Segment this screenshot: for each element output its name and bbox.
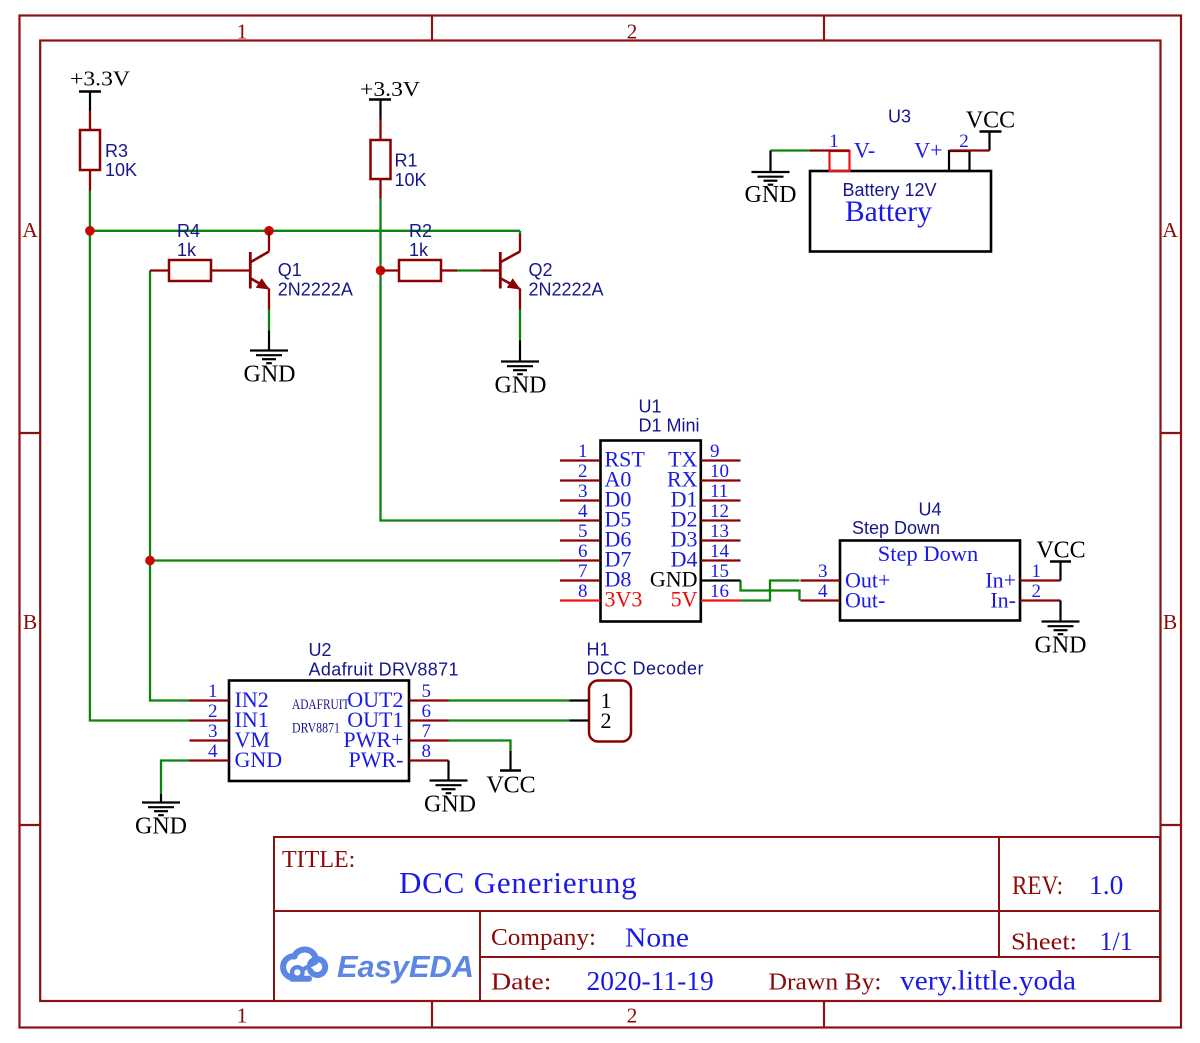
IC U4 Step Down body xyxy=(840,541,1020,621)
wire net y230 horizontal xyxy=(90,230,520,232)
svg-text:2: 2 xyxy=(959,131,969,152)
svg-text:VCC: VCC xyxy=(486,773,535,799)
svg-text:GND: GND xyxy=(244,362,296,388)
svg-text:2N2222A: 2N2222A xyxy=(278,280,353,300)
svg-text:3: 3 xyxy=(578,481,588,502)
EasyEDA logo cloud icon xyxy=(283,949,325,978)
svg-text:3: 3 xyxy=(208,721,218,742)
svg-text:B: B xyxy=(1163,610,1177,634)
svg-text:R1: R1 xyxy=(395,151,418,171)
svg-text:Adafruit DRV8871: Adafruit DRV8871 xyxy=(309,660,459,680)
svg-text:14: 14 xyxy=(710,541,730,562)
svg-text:U1: U1 xyxy=(639,397,662,417)
U4 pin 4 xyxy=(801,581,886,613)
U1 pin 1 xyxy=(560,441,645,472)
svg-text:Step Down: Step Down xyxy=(878,541,979,566)
wire R2 right to Q2 base xyxy=(457,269,481,271)
svg-text:3: 3 xyxy=(818,561,828,582)
svg-text:7: 7 xyxy=(422,721,432,742)
ground symbol below U4 pin 2 xyxy=(1042,601,1080,635)
wire net y230 corner down to Q2 collector xyxy=(519,231,521,236)
svg-text:Company:: Company: xyxy=(491,925,596,951)
wire D7 horizontal xyxy=(150,559,560,561)
wire U1 pin16 to U4 pin3 xyxy=(741,581,800,601)
resistor R3 xyxy=(80,111,100,191)
wire U1 pin15 to U4 pin4 xyxy=(741,581,800,601)
svg-text:5: 5 xyxy=(422,681,432,702)
svg-text:GND: GND xyxy=(424,792,476,818)
svg-text:1: 1 xyxy=(208,681,218,702)
power flag +3.3V for R3 xyxy=(70,67,130,111)
svg-text:TITLE:: TITLE: xyxy=(282,847,355,873)
wire U2 GND pin4 xyxy=(161,761,190,795)
svg-text:+3.3V: +3.3V xyxy=(360,77,420,101)
svg-text:6: 6 xyxy=(578,541,588,562)
junction node at R3 bottom xyxy=(85,226,95,236)
wire R4 left vertical to IN2 xyxy=(150,271,190,701)
wire Q2 emitter to GND xyxy=(519,310,521,341)
transistor Q1 emitter arrow xyxy=(256,278,270,289)
svg-text:GND: GND xyxy=(235,747,283,772)
svg-text:4: 4 xyxy=(578,501,588,522)
U1 pin 13 xyxy=(671,521,741,552)
svg-text:A: A xyxy=(22,218,38,242)
svg-text:3V3: 3V3 xyxy=(605,587,643,612)
svg-text:Battery: Battery xyxy=(845,196,932,228)
U1 pin 3 xyxy=(560,481,631,512)
svg-text:2: 2 xyxy=(627,1004,638,1028)
svg-text:GND: GND xyxy=(1035,633,1087,659)
svg-text:12: 12 xyxy=(710,501,729,522)
svg-text:DRV8871: DRV8871 xyxy=(292,721,340,737)
U1 pin 16 5V xyxy=(671,581,741,612)
svg-text:DCC Generierung: DCC Generierung xyxy=(399,865,637,900)
junction node at R2 left xyxy=(376,266,386,276)
svg-text:10: 10 xyxy=(710,461,729,482)
svg-text:4: 4 xyxy=(818,581,828,602)
svg-text:5V: 5V xyxy=(671,587,698,612)
battery U3 pin 1 V- xyxy=(810,131,875,171)
transistor Q2 xyxy=(481,234,521,310)
svg-text:8: 8 xyxy=(422,741,432,762)
U2 pin 8 xyxy=(349,741,449,772)
svg-text:EasyEDA: EasyEDA xyxy=(337,949,474,984)
junction node at D7 tap xyxy=(145,556,155,566)
svg-text:6: 6 xyxy=(422,701,432,722)
svg-text:A: A xyxy=(1162,218,1178,242)
ground symbol at battery pin 1 xyxy=(752,151,790,185)
svg-text:VCC: VCC xyxy=(966,108,1015,134)
svg-text:V+: V+ xyxy=(914,138,942,163)
svg-text:9: 9 xyxy=(710,441,720,462)
U2 pin 5 xyxy=(347,681,448,712)
U1 pin 15 GND xyxy=(650,561,741,592)
U1 pin 14 xyxy=(671,541,741,572)
junction node at Q1 collector xyxy=(264,226,274,236)
svg-text:Out-: Out- xyxy=(845,588,885,613)
svg-text:16: 16 xyxy=(710,581,729,602)
U1 pin 6 xyxy=(560,541,631,572)
svg-text:1/1: 1/1 xyxy=(1100,927,1133,956)
svg-text:very.little.yoda: very.little.yoda xyxy=(900,965,1076,996)
svg-text:Step Down: Step Down xyxy=(852,518,940,538)
IC U1 D1 Mini body xyxy=(601,441,701,622)
svg-text:1k: 1k xyxy=(177,240,197,260)
svg-text:VCC: VCC xyxy=(1036,538,1085,564)
svg-text:+3.3V: +3.3V xyxy=(70,67,130,91)
svg-text:Drawn By:: Drawn By: xyxy=(769,970,882,996)
resistor R1 xyxy=(371,120,391,199)
U4 pin 1 xyxy=(985,561,1060,593)
svg-text:PWR-: PWR- xyxy=(349,747,404,772)
svg-text:15: 15 xyxy=(710,561,729,582)
U2 pin 7 xyxy=(343,721,448,752)
svg-text:10K: 10K xyxy=(395,170,427,190)
U2 pin 4 xyxy=(190,741,283,772)
ground symbol below U2 pin 4 xyxy=(142,794,180,815)
svg-text:2N2222A: 2N2222A xyxy=(529,280,604,300)
svg-text:B: B xyxy=(23,610,37,634)
svg-text:13: 13 xyxy=(710,521,729,542)
U1 pin 8 3V3 xyxy=(560,581,642,612)
wire Q1 emitter to GND xyxy=(268,310,270,331)
svg-text:Sheet:: Sheet: xyxy=(1011,930,1077,956)
U2 pin 3 xyxy=(190,721,270,752)
svg-text:4: 4 xyxy=(208,741,218,762)
svg-text:8: 8 xyxy=(578,581,588,602)
svg-text:1.0: 1.0 xyxy=(1089,869,1123,900)
svg-text:GND: GND xyxy=(745,182,797,208)
svg-text:H1: H1 xyxy=(587,640,610,660)
resistor R2 xyxy=(381,260,458,281)
svg-text:U2: U2 xyxy=(309,640,332,660)
ground symbol below Q1 xyxy=(250,331,288,364)
IC U2 Adafruit DRV8871 body xyxy=(229,681,409,782)
U1 pin 9 xyxy=(668,441,740,472)
power flag VCC above U4 pin 1 xyxy=(1036,538,1085,581)
wire battery pin1 to GND xyxy=(771,149,811,151)
svg-text:REV:: REV: xyxy=(1012,871,1063,900)
battery U3 pin 2 V+ xyxy=(914,131,989,171)
svg-text:GND: GND xyxy=(135,814,187,840)
U2 pin 2 xyxy=(190,701,269,732)
svg-text:1: 1 xyxy=(1032,561,1042,582)
wire R3 bottom to junction xyxy=(89,191,91,231)
svg-text:1: 1 xyxy=(829,131,839,152)
svg-text:Q1: Q1 xyxy=(278,260,302,280)
U1 pin 5 xyxy=(560,521,631,552)
ground symbol below U2 pin 8 xyxy=(430,761,468,794)
svg-text:1: 1 xyxy=(237,19,248,43)
U1 pin 10 xyxy=(667,461,741,492)
svg-text:U4: U4 xyxy=(918,500,941,520)
title block grid xyxy=(274,837,1160,1001)
U1 pin 11 xyxy=(671,481,741,512)
svg-text:1: 1 xyxy=(237,1004,248,1028)
resistor R4 xyxy=(150,260,249,281)
H1 pin 2 xyxy=(570,708,612,733)
U2 pin 1 xyxy=(190,681,269,712)
U4 pin 2 xyxy=(990,581,1060,613)
power flag VCC above battery pin 2 xyxy=(966,108,1015,151)
U1 pin 7 xyxy=(560,561,631,592)
svg-text:2020-11-19: 2020-11-19 xyxy=(587,965,714,996)
svg-text:R3: R3 xyxy=(105,141,128,161)
U1 pin 2 xyxy=(560,461,631,492)
svg-text:10K: 10K xyxy=(105,160,137,180)
svg-text:2: 2 xyxy=(627,19,638,43)
svg-text:DCC Decoder: DCC Decoder xyxy=(587,659,705,679)
wire left vertical to IN1 xyxy=(90,231,190,721)
U4 pin 3 xyxy=(801,561,891,593)
wire R1 bottom vertical to D5 xyxy=(381,199,561,521)
H1 pin 1 xyxy=(570,688,612,713)
svg-text:1: 1 xyxy=(578,441,588,462)
wire PWR+ to VCC xyxy=(449,741,511,752)
U1 pin 4 xyxy=(560,501,631,532)
svg-text:1k: 1k xyxy=(409,240,429,260)
svg-text:In-: In- xyxy=(990,588,1016,613)
battery U3 body xyxy=(810,171,991,252)
U2 pin 6 xyxy=(347,701,448,732)
svg-text:2: 2 xyxy=(601,708,612,733)
svg-text:11: 11 xyxy=(710,481,728,502)
ground symbol below Q2 xyxy=(501,341,539,375)
U1 pin 12 xyxy=(671,501,741,532)
svg-text:U3: U3 xyxy=(888,107,911,127)
transistor Q2 emitter arrow xyxy=(507,278,521,289)
svg-text:2: 2 xyxy=(208,701,218,722)
power flag VCC below U2 pin 7 xyxy=(486,751,535,799)
svg-text:Q2: Q2 xyxy=(529,260,553,280)
svg-text:2: 2 xyxy=(1032,581,1042,602)
wire OUT1 to H1 pin2 xyxy=(449,719,570,721)
power flag +3.3V for R1 xyxy=(360,77,420,120)
connector H1 body xyxy=(589,681,631,742)
svg-text:R2: R2 xyxy=(409,221,432,241)
wire OUT2 to H1 pin1 xyxy=(449,699,570,701)
svg-text:2: 2 xyxy=(578,461,588,482)
svg-text:R4: R4 xyxy=(177,221,200,241)
svg-text:5: 5 xyxy=(578,521,588,542)
svg-text:ADAFRUIT: ADAFRUIT xyxy=(292,697,350,713)
svg-text:7: 7 xyxy=(578,561,588,582)
transistor Q1 xyxy=(250,231,269,310)
svg-text:None: None xyxy=(625,922,689,953)
svg-text:D1 Mini: D1 Mini xyxy=(639,416,700,436)
svg-text:Date:: Date: xyxy=(491,970,552,996)
svg-text:GND: GND xyxy=(495,373,547,399)
svg-text:V-: V- xyxy=(854,138,875,163)
